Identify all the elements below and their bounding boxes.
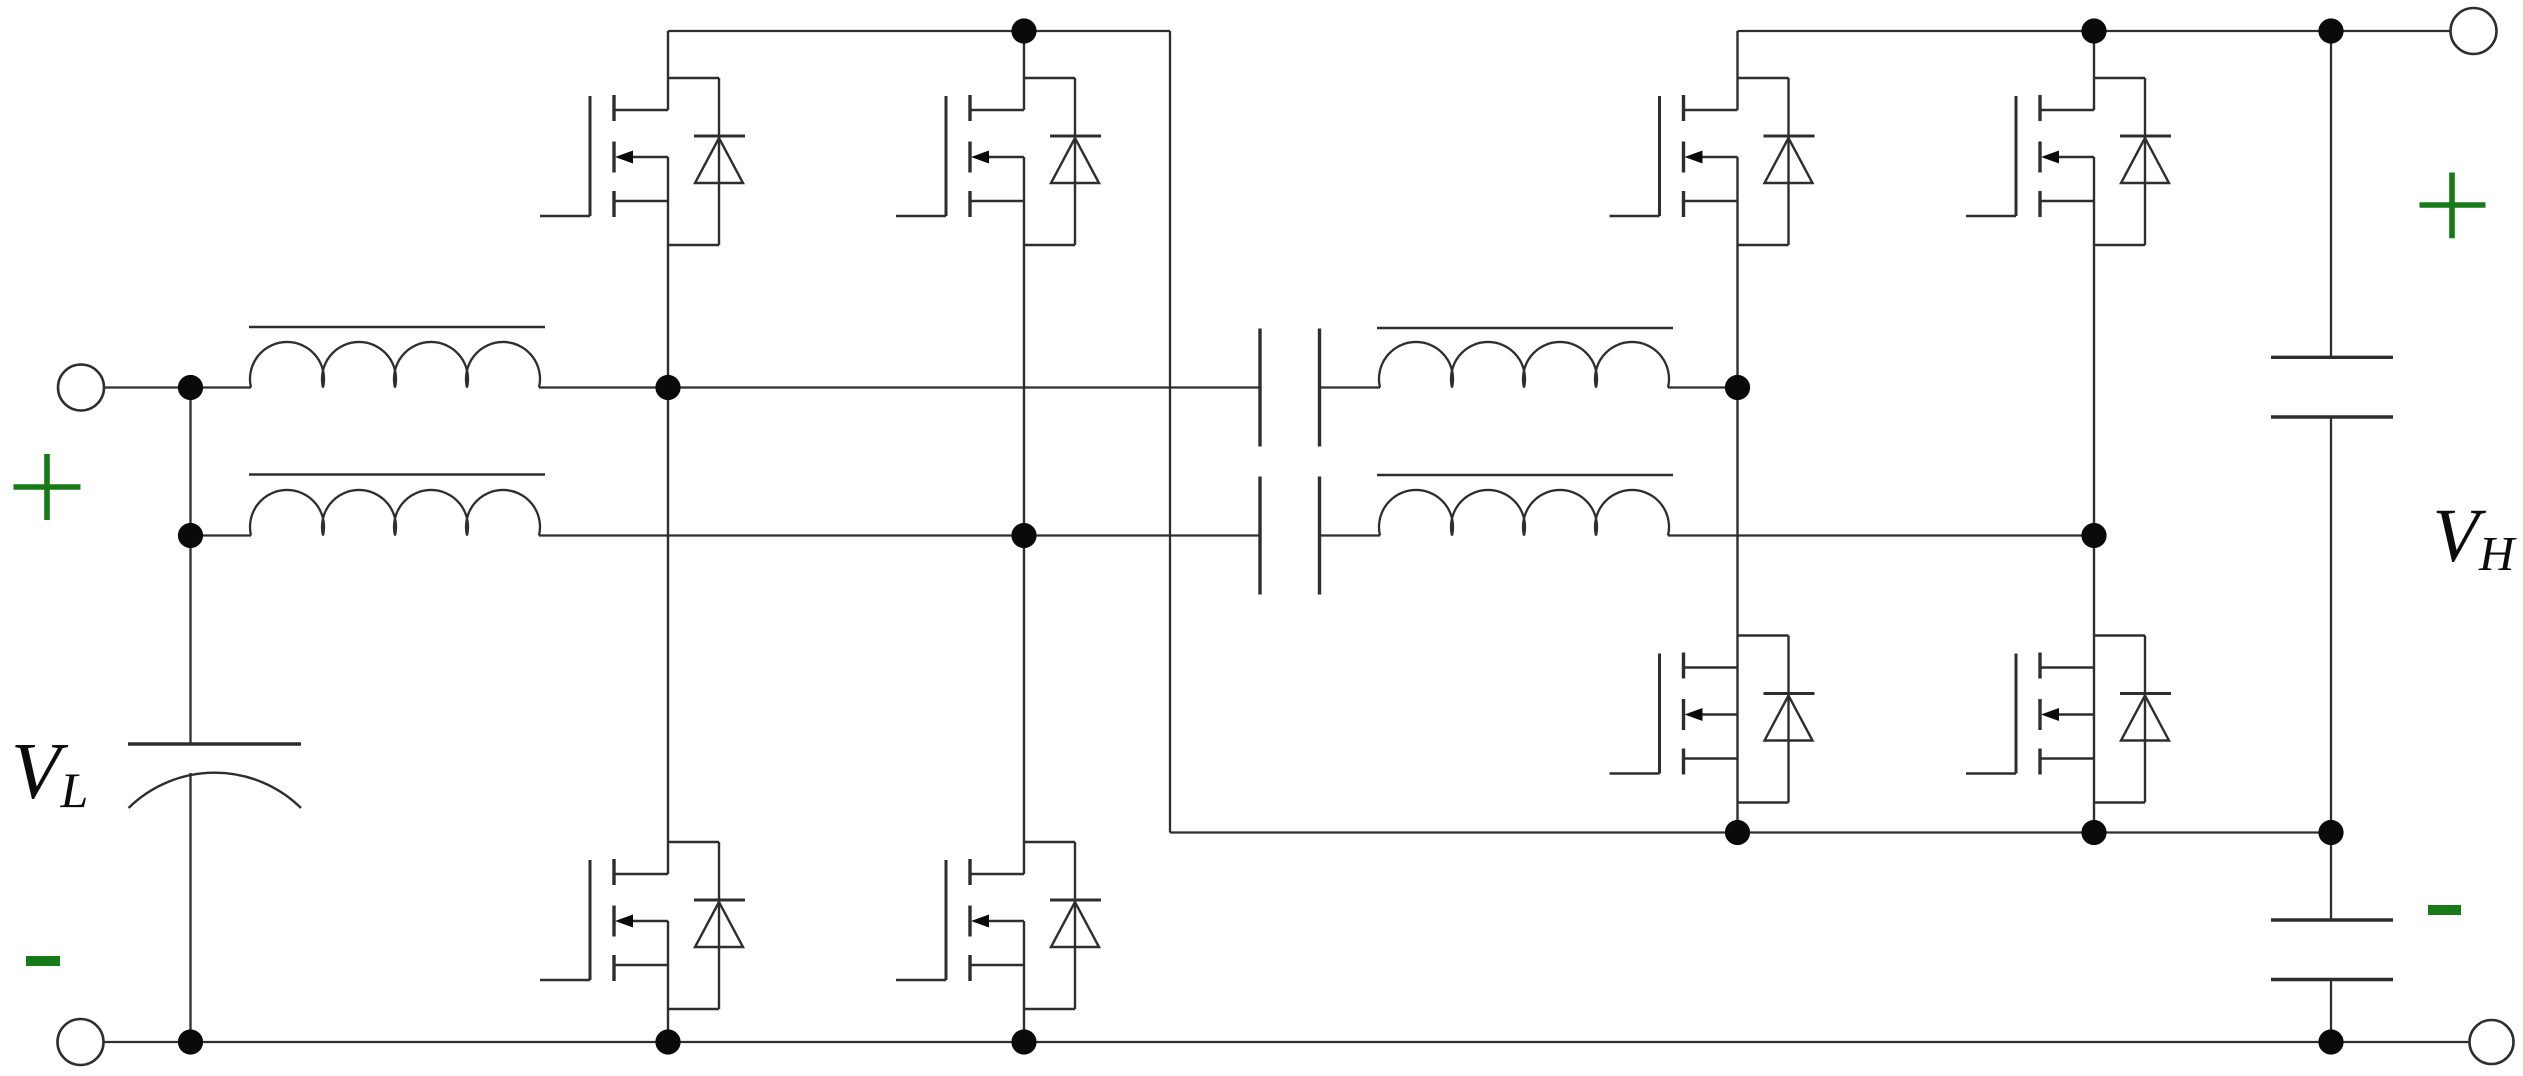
wire: inductor L1 to phase node A bbox=[539, 386, 668, 388]
node: bottom rail / Q2 source bbox=[655, 1029, 680, 1054]
node: phase A bbox=[655, 375, 680, 400]
label: plus sign V_L side bbox=[10, 450, 86, 526]
label: minus sign V_H side bbox=[2428, 905, 2461, 915]
wire: VL+ terminal to node VL+ bbox=[104, 386, 191, 388]
node: bottom rail / Q4 source bbox=[1011, 1029, 1036, 1054]
inductor L1 (coupled, phase 1 left) bbox=[249, 327, 545, 388]
MOSFET Q6 (right bridge, low side phase 1) with body diode bbox=[1610, 388, 1815, 833]
wire: phase node B to blocking capacitor C2 bbox=[1024, 534, 1260, 536]
MOSFET Q3 (left bridge, high side phase 2) with body diode bbox=[896, 31, 1101, 536]
node VL+ (row A) bbox=[178, 375, 203, 400]
wire: capacitor C2 to inductor L4 bbox=[1320, 534, 1381, 536]
node: output cap midpoint bbox=[2318, 820, 2343, 845]
node: top rail / Q3 drain bbox=[1011, 18, 1036, 43]
wire: capacitor C1 to inductor L3 bbox=[1320, 386, 1381, 388]
inductor L3 (coupled, phase 1 right) bbox=[1377, 328, 1673, 388]
wire: node VL+ down to node row B bbox=[189, 388, 191, 536]
MOSFET Q4 (left bridge, low side phase 2) with body diode bbox=[896, 536, 1101, 1043]
label: V_H bbox=[2433, 498, 2515, 578]
node: phase D bbox=[2081, 523, 2106, 548]
node: bottom rail / VL cap bbox=[178, 1029, 203, 1054]
wire: right bridge return rail (node C leg to node D leg) bbox=[1738, 831, 2095, 833]
wire: midpoint node to capacitor CH2 bbox=[2330, 833, 2332, 921]
terminal: V_L negative (bottom-left) bbox=[58, 1019, 104, 1065]
wire: inductor L3 to phase node C bbox=[1668, 386, 1738, 388]
node: top rail / output cap branch bbox=[2318, 18, 2343, 43]
capacitor CH2 (V_H output, lower) bbox=[2271, 920, 2393, 980]
node: Q6 source on return rail bbox=[1725, 820, 1750, 845]
wire: output cap branch from top rail bbox=[2330, 31, 2332, 357]
wire: inductor L4 to phase node D bbox=[1668, 534, 2094, 536]
wire: capacitor CH1 to midpoint node bbox=[2330, 417, 2332, 833]
wire: top rail right (Q5 drain to VH+ terminal) bbox=[1738, 30, 2451, 32]
wire: top rail left (Q1 drain to cross-down wire) bbox=[668, 30, 1170, 32]
MOSFET Q5 (right bridge, high side phase 1) with body diode bbox=[1610, 31, 1815, 388]
label: V_L bbox=[11, 731, 88, 815]
terminal: V_H positive (top-right) bbox=[2451, 8, 2497, 54]
node: phase B bbox=[1011, 523, 1036, 548]
terminal: V_H negative (bottom-right) bbox=[2470, 1020, 2514, 1064]
node: phase C bbox=[1725, 375, 1750, 400]
terminal: V_L positive (top-left) bbox=[58, 365, 104, 411]
MOSFET Q7 (right bridge, high side phase 2) with body diode bbox=[1966, 31, 2171, 536]
wire: bottom rail bbox=[104, 1041, 2470, 1043]
wire: capacitor CL to bottom rail bbox=[189, 773, 191, 1042]
node: top rail / Q7 drain bbox=[2081, 18, 2106, 43]
capacitor C1 (series blocking, phase 1) bbox=[1260, 329, 1320, 447]
wire: phase node A to blocking capacitor C1 bbox=[668, 386, 1260, 388]
label: minus sign V_L side bbox=[26, 956, 60, 966]
inductor L4 (coupled, phase 2 right) bbox=[1377, 475, 1673, 536]
wire: node VL+ cap branch down to capacitor CL bbox=[189, 536, 191, 745]
MOSFET Q1 (left bridge, high side phase 1) with body diode bbox=[540, 31, 745, 388]
wire: cross-connect horizontal to right bridge return bbox=[1170, 831, 1738, 833]
node: row B left bbox=[178, 523, 203, 548]
node: Q8 source on return rail bbox=[2081, 820, 2106, 845]
node: bottom rail / output cap bbox=[2318, 1029, 2343, 1054]
inductor L2 (coupled, phase 2 left) bbox=[249, 475, 545, 536]
wire: row-B node to inductor L2 bbox=[191, 534, 252, 536]
wire: capacitor CH2 to bottom rail bbox=[2330, 980, 2332, 1043]
capacitor CL (V_L input, polarized) bbox=[128, 744, 301, 808]
MOSFET Q2 (left bridge, low side phase 1) with body diode bbox=[540, 388, 745, 1043]
capacitor C2 (series blocking, phase 2) bbox=[1260, 477, 1320, 595]
wire: inductor L2 to phase node B bbox=[539, 534, 1024, 536]
wire: right bridge return rail to output cap midpoint bbox=[2094, 831, 2331, 833]
capacitor CH1 (V_H output, upper) bbox=[2271, 357, 2393, 417]
wire: node VL+ to inductor L1 bbox=[191, 386, 252, 388]
label: plus sign V_H side bbox=[2419, 172, 2486, 239]
MOSFET Q8 (right bridge, low side phase 2) with body diode bbox=[1966, 536, 2171, 833]
wire: cross-connect vertical from top rail bbox=[1169, 31, 1171, 833]
